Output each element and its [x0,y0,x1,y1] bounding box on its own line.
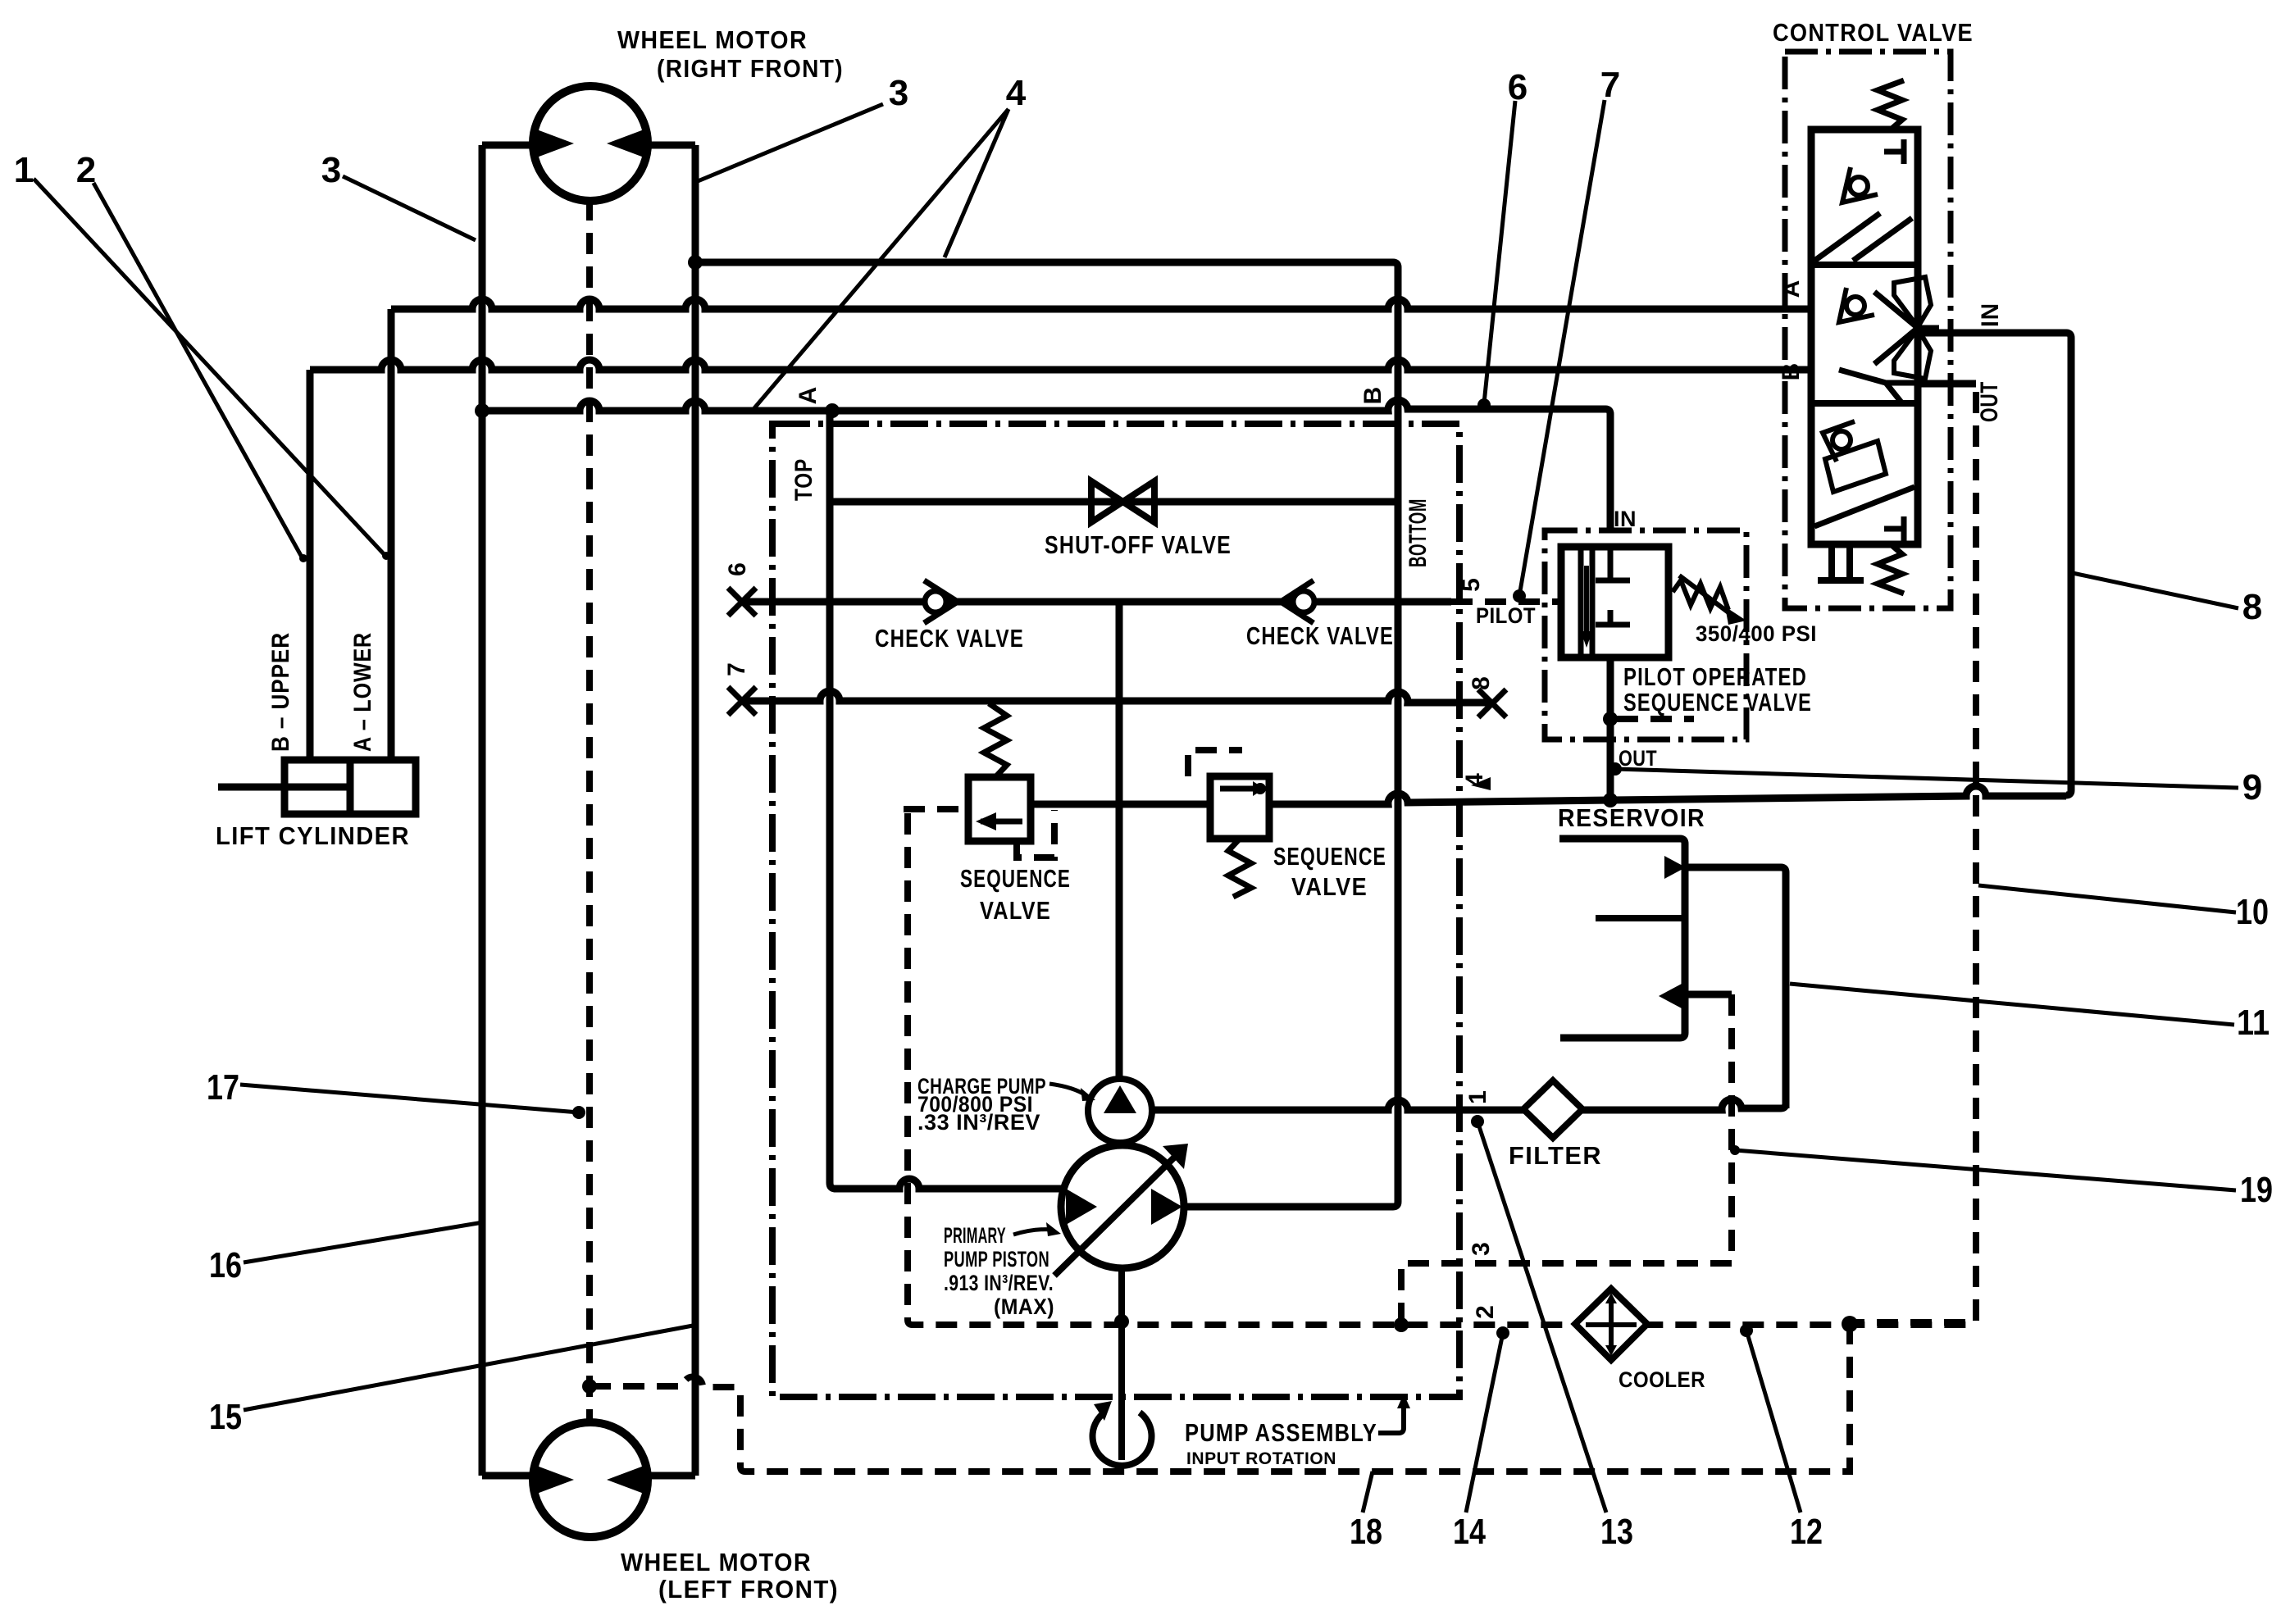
svg-text:B – UPPER: B – UPPER [267,632,294,752]
node junction dot line2 at shaft [1114,1314,1129,1329]
sequence valve 2 spring [1228,839,1251,897]
control valve B passage diagonal [1839,370,1919,403]
svg-text:18: 18 [1350,1512,1382,1552]
svg-text:3: 3 [321,150,341,190]
label charge pump arrow [1049,1084,1087,1096]
wire motor loop bottom right [646,1472,695,1480]
svg-text:16: 16 [209,1245,242,1285]
wire reservoir suction stub [1682,991,1732,999]
svg-text:12: 12 [1790,1512,1823,1552]
svg-text:.33 IN³/REV: .33 IN³/REV [917,1110,1040,1135]
svg-text:RESERVOIR: RESERVOIR [1558,803,1705,832]
wire lift cylinder A vertical [388,309,395,760]
svg-text:WHEEL MOTOR: WHEEL MOTOR [617,25,808,54]
svg-text:VALVE: VALVE [980,896,1051,925]
pump input rotation arc [1093,1412,1152,1466]
primary pump variable displacement arrow [1054,1153,1179,1276]
svg-text:OUT: OUT [1976,381,2003,422]
svg-text:B: B [1778,362,1805,381]
label primary pump arrow [1013,1230,1053,1235]
svg-text:(RIGHT FRONT): (RIGHT FRONT) [657,54,844,83]
wire motor loop top right [647,142,695,149]
svg-text:8: 8 [1468,676,1495,690]
control valve cell dividers [1811,265,1918,403]
svg-text:11: 11 [2237,1003,2270,1043]
control valve body [1811,130,1918,544]
svg-text:9: 9 [2242,767,2262,807]
control valve mid cell wedge lower [1894,329,1931,379]
leader line callout 9 [1615,769,2238,788]
cooler diamond [1575,1289,1647,1360]
svg-text:13: 13 [1600,1512,1633,1552]
svg-text:CHECK VALVE: CHECK VALVE [1246,621,1394,650]
node junction dot OUT line 4 [1603,793,1618,807]
pump input shaft [1118,1268,1125,1460]
wire dashed line 2 cooler return [908,813,1976,1325]
sequence valve 1 body [968,777,1031,841]
leader line callout 2 [93,183,303,560]
control valve bottom cell check [1833,431,1851,449]
control valve top spring [1878,80,1904,130]
wire motor loop top left [482,142,535,149]
pump input rotation arrowhead [1094,1401,1112,1421]
node junction dot OUT [1603,712,1618,726]
sequence valve 1 arrow [981,819,1022,825]
svg-text:SEQUENCE: SEQUENCE [960,864,1071,893]
svg-text:B: B [1359,386,1386,405]
svg-text:CHECK VALVE: CHECK VALVE [875,624,1024,653]
svg-text:PRIMARY: PRIMARY [944,1223,1006,1248]
svg-text:(MAX): (MAX) [994,1294,1054,1319]
svg-text:3: 3 [889,73,908,113]
node junction dot bus1 [688,255,703,270]
leader line callout 10 [1978,885,2236,912]
control valve bottom tank T [1884,516,1904,541]
wire charge pump center vertical [1116,602,1123,1080]
svg-text:17: 17 [207,1067,239,1108]
control valve bottom spring [1878,544,1904,594]
svg-text:4: 4 [1006,73,1027,113]
filter diamond [1523,1080,1582,1138]
leader line callout 8 [2073,573,2238,608]
svg-text:COOLER: COOLER [1619,1367,1705,1392]
control valve bottom cell diagonal [1814,487,1914,526]
wire inner block left vertical from port A down to pump left port [830,411,1063,1189]
wire sequence valve output line 4 to reservoir junction [1031,786,2066,804]
leader line callout 15 [244,1326,693,1410]
wire control valve OUT stub [1919,380,1976,388]
svg-text:1: 1 [14,150,34,190]
wire shut-off valve line [830,498,1398,506]
cooler internal line with arrows [1586,1298,1637,1351]
svg-text:(LEFT FRONT): (LEFT FRONT) [658,1575,839,1604]
svg-text:BOTTOM: BOTTOM [1405,498,1432,567]
leader line callout 6 [1484,101,1515,403]
svg-text:1: 1 [1464,1089,1491,1104]
svg-text:PILOT OPERATED: PILOT OPERATED [1623,662,1807,691]
wire pilot sequence valve OUT vertical [1607,657,1614,800]
wire dashed motor centerline [586,199,593,1423]
control valve bottom cell box [1825,441,1886,492]
wire motor loop left vertical [479,145,486,1476]
svg-text:.913 IN³/REV.: .913 IN³/REV. [944,1271,1054,1295]
wire dashed bracket left sequence valve [1017,810,1054,857]
svg-text:8: 8 [2242,587,2262,627]
sequence valve 2 body [1210,776,1269,839]
wire motor loop bottom left [482,1472,535,1480]
svg-text:SEQUENCE: SEQUENCE [1273,842,1386,871]
svg-text:WHEEL MOTOR: WHEEL MOTOR [621,1548,812,1576]
charge pump triangle [1104,1085,1136,1113]
wire bus line 4 port A line to pilot sequence valve [482,400,1610,530]
wheel motor right front left arrow [535,129,574,158]
wheel motor left front right arrow [607,1465,646,1494]
svg-text:4: 4 [1461,772,1488,787]
svg-text:IN: IN [1977,303,2004,327]
pilot operated sequence valve body [1561,547,1669,657]
wire bus line 2 lift cylinder A to control valve port A [391,299,1846,309]
wire dashed spur to left sequence valve [904,806,968,812]
pilot valve T symbol lower [1596,610,1630,625]
leader line callout 3 right [698,104,883,181]
check valve right (ball and seat) [1281,580,1314,623]
reservoir outflow arrow [1659,984,1682,1008]
pilot valve spool lines [1581,547,1592,657]
pilot valve adjustment arrow [1679,575,1732,615]
wire bus line 3 lift cylinder B to control valve port B [310,360,1919,383]
leader line callout 18 [1363,1472,1373,1513]
primary pump left triangle [1066,1189,1097,1225]
svg-text:SEQUENCE VALVE: SEQUENCE VALVE [1623,688,1812,716]
svg-text:6: 6 [1508,67,1527,107]
leader line callout 14 [1466,1333,1503,1513]
leader line callout 16 [244,1222,483,1262]
leader line callout 1 [34,179,387,557]
svg-text:FILTER: FILTER [1509,1141,1602,1170]
wire filter return riser to reservoir [1687,867,1786,1108]
svg-text:2: 2 [76,150,96,190]
svg-text:3: 3 [1468,1241,1495,1256]
plug X port 8 [1478,689,1506,717]
node junction dot leader 12 [1740,1324,1753,1337]
primary pump piston circle [1061,1145,1184,1268]
pilot valve internal arrow [1584,566,1589,635]
svg-text:10: 10 [2236,892,2269,932]
wire dashed bracket right sequence valve [1188,750,1242,776]
svg-text:CONTROL VALVE: CONTROL VALVE [1773,18,1974,47]
control valve top cell diagonals [1814,213,1912,261]
wheel motor right front circle [533,86,648,201]
svg-text:OUT: OUT [1619,746,1657,771]
wire charge pump to filter line [1151,1099,1786,1110]
svg-text:6: 6 [724,562,751,576]
lift cylinder body [285,760,416,814]
svg-text:TOP: TOP [790,458,817,501]
svg-text:SHUT-OFF VALVE: SHUT-OFF VALVE [1045,530,1232,559]
primary pump right triangle [1151,1189,1182,1225]
pilot operated sequence valve outer dash-dot box [1545,530,1746,739]
sequence valve 1 spring [984,703,1007,777]
pump assembly label arrow [1378,1405,1404,1433]
pump assembly dash-dot boundary box [772,424,1459,1397]
check valve left (ball and seat) [924,580,958,623]
svg-text:350/400 PSI: 350/400 PSI [1696,621,1817,646]
leader line callout 11 [1790,984,2234,1025]
svg-text:5: 5 [1458,577,1485,592]
control valve outer dash-dot box [1785,52,1951,608]
reservoir open box [1559,839,1685,1038]
wheel motor left front circle [533,1422,648,1537]
svg-text:IN: IN [1614,507,1637,531]
svg-text:A: A [794,386,822,405]
svg-text:2: 2 [1472,1304,1499,1319]
node junction dot leader 6 [1477,398,1491,412]
node junction dot motor branch [582,1379,597,1394]
svg-text:7: 7 [723,662,750,676]
leader line callout 12 [1746,1331,1801,1513]
wire lift cylinder inlet line [218,784,285,791]
leader line callout 7 [1519,100,1605,596]
wire lift cylinder B vertical [307,370,314,760]
control valve top cell check [1850,177,1868,195]
svg-text:LIFT CYLINDER: LIFT CYLINDER [216,821,410,850]
shut-off valve bowtie [1091,481,1154,522]
control valve mid cell wedge upper [1894,277,1931,327]
svg-text:INPUT ROTATION: INPUT ROTATION [1186,1449,1336,1468]
plug X port 7 [728,687,756,715]
svg-text:7: 7 [1600,65,1620,105]
node junction dot line2 at cooler corner [1842,1316,1858,1332]
wire dashed pilot line [1451,598,1561,605]
wire dashed pilot valve internal drain [1617,716,1694,722]
control valve top cell tank T [1884,139,1904,164]
wire dashed motor branch to bottom dashed bus [590,1329,1850,1472]
wire dashed control valve OUT return down [1853,392,1976,1322]
pilot valve spring [1673,580,1728,610]
svg-text:PUMP PISTON: PUMP PISTON [944,1247,1049,1271]
wheel motor right front right arrow [607,129,646,158]
leader line callout 13 [1477,1121,1606,1513]
svg-text:19: 19 [2240,1170,2273,1210]
svg-text:PILOT: PILOT [1476,603,1536,628]
svg-text:VALVE: VALVE [1291,872,1368,901]
plug X port 6 [728,588,756,616]
pilot valve IN passage T symbol upper [1596,547,1630,580]
wire motor loop right vertical [692,145,699,1476]
wire check valve line port 6 to pilot [742,598,1398,606]
sequence valve 2 arrow [1220,786,1254,792]
charge pump circle [1088,1079,1152,1143]
wire control valve IN vertical [1919,333,2071,795]
leader line callout 19 [1735,1150,2236,1190]
svg-text:15: 15 [209,1397,242,1437]
reservoir interior stub [1596,915,1685,921]
leader line callout 3 left [343,176,476,240]
wheel motor left front left arrow [535,1465,574,1494]
wire check valve line solid continuation [1398,598,1451,606]
wire port 7 line with plug ends [742,691,1492,703]
svg-text:A: A [1778,280,1805,298]
svg-text:PUMP ASSEMBLY: PUMP ASSEMBLY [1185,1418,1377,1447]
svg-text:14: 14 [1453,1512,1486,1552]
node junction dot line2 at stub [1394,1317,1409,1332]
control valve mid cell check [1846,297,1864,315]
svg-text:A – LOWER: A – LOWER [349,632,376,752]
node junction dot port A [825,403,840,418]
flow arrow on OUT line [1471,777,1491,790]
leader lines callout 4 [754,109,1008,409]
wire bus line 1 from right motor vertical to main right vertical and down to pump right port [695,262,1398,1207]
control valve mid cell X passages [1874,292,1939,364]
reservoir inflow arrow [1664,856,1686,879]
node junction dot bus4 left [475,403,489,418]
leader line callout 17 [240,1085,579,1112]
wire dashed reservoir suction line [1401,994,1732,1321]
control valve pedestal [1818,544,1864,580]
